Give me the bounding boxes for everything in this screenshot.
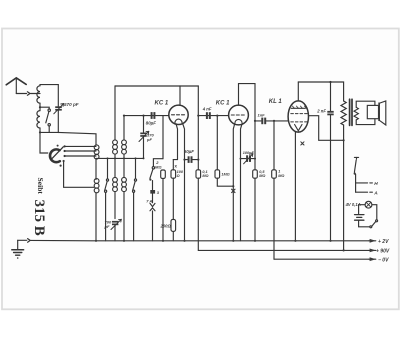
tube V3 KL1 xyxy=(288,82,308,132)
wire bottom of tuned circuit to coil L3 xyxy=(40,132,96,145)
svg-text:60µF: 60µF xyxy=(184,149,194,154)
svg-text:80µF: 80µF xyxy=(146,121,156,126)
tube V1 KC1 xyxy=(169,86,188,125)
wire ground to plug xyxy=(18,239,27,241)
wire tap A xyxy=(356,191,373,193)
trimmer capacitor C2 700pF xyxy=(111,219,121,241)
node bus junctions xyxy=(114,157,116,159)
transformer T1 primary xyxy=(341,101,346,125)
transformer T1 secondary xyxy=(354,107,358,120)
coil L8 (lower right) xyxy=(122,177,127,191)
transformer T1 core xyxy=(350,99,352,125)
wire V1 cathode pin xyxy=(176,124,178,160)
fuse / plug 7A xyxy=(146,198,155,240)
svg-text:MΩ: MΩ xyxy=(202,174,208,178)
resistor R3 200 ohm xyxy=(171,219,176,240)
wire L5 bottom to bus xyxy=(114,154,116,158)
capacitor C7 4nF xyxy=(206,112,211,119)
wire rail 1 (+2V filament) xyxy=(31,239,369,241)
svg-text:KC 1: KC 1 xyxy=(155,101,169,107)
coil L2 (antenna coil, lower) xyxy=(37,111,40,128)
tube V2 KC1 xyxy=(229,84,249,125)
svg-text:200Ω: 200Ω xyxy=(160,224,172,229)
switch S6 (lamp) xyxy=(370,220,378,228)
resistor R4 0.1 Mohm xyxy=(196,170,201,251)
wire to switch S1 xyxy=(40,107,49,109)
wire V3 screen L xyxy=(309,116,344,141)
wire rail drop to coil L5 xyxy=(114,86,116,140)
wire L3 to L4 xyxy=(95,145,97,180)
node rail1 junctions xyxy=(95,240,332,242)
wire grid line V2 xyxy=(198,115,228,117)
trimmer capacitor C3 570pF (section 2) xyxy=(139,116,149,159)
node coupling junction xyxy=(254,120,256,122)
svg-text:KC 1: KC 1 xyxy=(216,100,230,106)
switch S3 (band switch left) xyxy=(105,158,109,240)
svg-text:Ω: Ω xyxy=(176,174,180,178)
svg-text:pF: pF xyxy=(146,137,152,142)
wire V2 left pin xyxy=(233,124,234,241)
svg-text:1MΩ: 1MΩ xyxy=(221,172,229,176)
wire battery to switch xyxy=(359,220,370,226)
wire grid line tube V1 xyxy=(124,115,169,117)
node plate rail junction xyxy=(329,81,331,83)
svg-text:570 pF: 570 pF xyxy=(64,102,79,107)
switch S5 (output selector) xyxy=(354,157,359,192)
node grid V3 xyxy=(273,120,275,122)
coil L1 (antenna coil, top) xyxy=(37,86,40,103)
capacitor C1 570pF (tuning, section 1) xyxy=(54,85,64,133)
wire rail 2 (+90V) xyxy=(198,249,369,251)
wire L2 lead xyxy=(39,107,41,132)
wire plug to coil L1 xyxy=(31,93,40,95)
node bottom coil junction xyxy=(39,131,41,133)
resistor R6 0.5 Mohm (plate load) xyxy=(253,121,258,241)
svg-text:MΩ: MΩ xyxy=(278,174,284,178)
switch S4 (band switch right) xyxy=(133,158,137,240)
lamp 4V 0,1A xyxy=(365,201,372,208)
wire switch to lamp right xyxy=(372,205,377,220)
coil L3 (oscillator coil upper) xyxy=(94,145,99,159)
antenna xyxy=(6,78,26,94)
resistor R5 1 Mohm (grid leak V2) xyxy=(215,116,233,187)
wire HF rail top left xyxy=(115,85,198,87)
svg-text:1nF: 1nF xyxy=(258,112,266,117)
svg-text:H: H xyxy=(374,181,378,187)
svg-text:pF: pF xyxy=(104,224,110,229)
node X terminal xyxy=(232,189,235,192)
antenna plug connector xyxy=(27,92,30,96)
wire switch contact row to coil L3 xyxy=(65,146,96,156)
node grid wire left xyxy=(123,115,125,117)
node grid junction V2 xyxy=(197,115,199,117)
wire V2 plate rail xyxy=(239,84,256,121)
wire antenna to plug xyxy=(16,93,26,95)
node 1M bottom junction xyxy=(232,185,234,187)
wire L4 to ground rail xyxy=(95,193,97,241)
svg-text:+ 90V: + 90V xyxy=(376,249,390,255)
model label 315 B xyxy=(31,200,47,236)
coil L7 (lower left) xyxy=(113,177,118,191)
coil L6 (IF coil secondary upper) xyxy=(122,140,127,154)
trimmer capacitor C8 100pF xyxy=(241,154,256,164)
terminal arrow +2V xyxy=(369,240,376,242)
wire lamp left xyxy=(359,205,366,214)
wire V3 plate rail xyxy=(298,82,343,101)
svg-text:A: A xyxy=(373,190,378,196)
svg-text:KL 1: KL 1 xyxy=(269,99,283,105)
wire L6 leads xyxy=(123,116,125,159)
wire L7 leads xyxy=(114,158,116,218)
switch S1 (wave band) xyxy=(46,109,51,132)
node 60uF right xyxy=(197,159,199,161)
capacitor C6 60uF xyxy=(185,156,199,163)
wire L8 leads xyxy=(123,158,125,240)
svg-text:MΩ: MΩ xyxy=(259,174,265,178)
svg-text:4 nF: 4 nF xyxy=(202,107,212,112)
node L1/L2 junction xyxy=(39,106,41,108)
brand label Seibt xyxy=(36,178,45,195)
capacitor C4 80uF (grid coupling) xyxy=(151,112,156,119)
svg-text:315 B: 315 B xyxy=(31,200,47,236)
label x (V3) xyxy=(301,142,304,145)
wire primary bottom to rail xyxy=(343,125,345,250)
svg-text:− 0V: − 0V xyxy=(378,257,389,263)
capacitor C9 1nF (coupling to V3) xyxy=(255,118,288,125)
wire V3 cathode pin xyxy=(294,132,296,241)
node grid leak top xyxy=(216,115,218,117)
wire V1 heater pin xyxy=(183,124,185,241)
wire tap H xyxy=(356,182,373,184)
svg-text:2 nF: 2 nF xyxy=(316,108,326,113)
wire plate dropper V1 xyxy=(197,86,199,170)
svg-text:MΩ: MΩ xyxy=(155,164,162,169)
ground xyxy=(12,240,24,259)
node cathode T xyxy=(173,159,177,161)
node transformer junction xyxy=(343,139,345,141)
svg-text:Seibt: Seibt xyxy=(36,178,45,195)
capacitor C10 2nF (tone) xyxy=(327,82,333,241)
resistor R1 2 Mohm branch xyxy=(149,116,165,241)
wire rotary lead down xyxy=(40,132,48,153)
svg-text:100pF: 100pF xyxy=(243,151,255,155)
wire rail 3 (-0V) xyxy=(274,258,369,260)
resistor R2 100 ohm xyxy=(171,160,176,220)
terminal arrow +90V xyxy=(369,249,376,251)
coil L4 (oscillator coil lower) xyxy=(94,179,99,193)
terminal arrow -0V xyxy=(369,258,376,260)
capacitor C5 (block, on switch branch) xyxy=(150,181,155,203)
battery B1 xyxy=(355,215,364,221)
wire switch lower contact to coil L4 xyxy=(64,162,94,188)
wire L1 top to C1 xyxy=(40,85,58,86)
wire coil bus xyxy=(96,157,144,159)
node rail2 junction xyxy=(343,249,345,251)
wire L1 bottom junction xyxy=(39,103,41,107)
coil L5 (IF coil primary upper) xyxy=(113,140,118,154)
node 60uF junction xyxy=(183,159,185,161)
node trimmer branch xyxy=(142,115,144,117)
svg-text:+ 2V: + 2V xyxy=(378,239,389,245)
wire V2 right pin xyxy=(241,124,242,241)
speaker LS xyxy=(356,101,386,125)
ground plug connector xyxy=(28,239,31,243)
node trimmer ends xyxy=(240,158,242,160)
rotary band switch S2 xyxy=(50,145,66,167)
resistor R7 1 Mohm (grid leak V3) xyxy=(272,121,277,259)
svg-text:7 A: 7 A xyxy=(146,198,152,203)
